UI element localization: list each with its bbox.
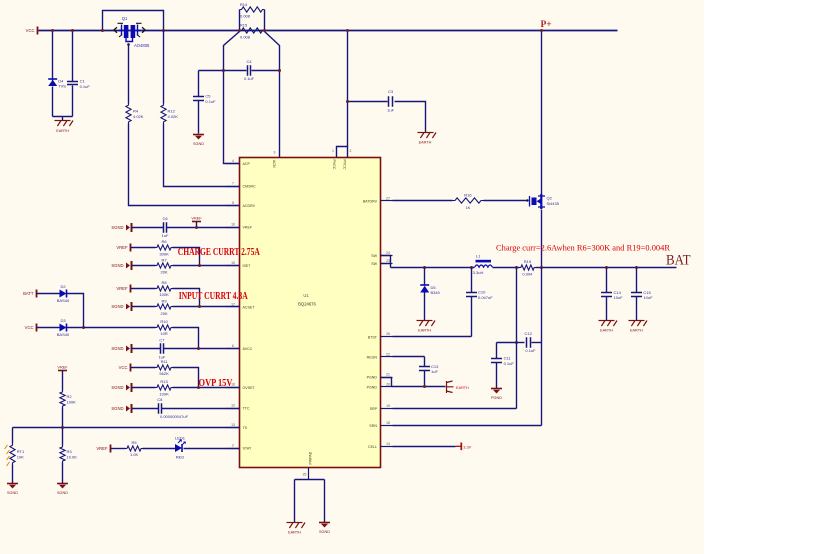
svg-text:7: 7 bbox=[232, 182, 234, 186]
power port VREF R6 bbox=[130, 244, 132, 252]
svg-text:4.02K: 4.02K bbox=[168, 114, 179, 119]
ground SGND at C5 bbox=[193, 135, 204, 140]
svg-text:26: 26 bbox=[386, 332, 390, 336]
svg-text:15: 15 bbox=[231, 261, 235, 265]
ground EARTH at D5 bbox=[417, 321, 436, 327]
svg-text:OVSET: OVSET bbox=[243, 386, 256, 390]
power port VREF at R2 bbox=[58, 370, 67, 372]
wire R12 to CMSRC bbox=[164, 124, 240, 187]
wire rail to R12 bbox=[163, 31, 165, 104]
ground EARTH at C3 bbox=[418, 133, 437, 139]
svg-text:Q2: Q2 bbox=[547, 196, 553, 201]
svg-text:24: 24 bbox=[386, 251, 390, 255]
svg-text:C4: C4 bbox=[246, 59, 252, 64]
wire C1 branch bbox=[72, 31, 74, 82]
svg-text:R8: R8 bbox=[162, 280, 168, 285]
svg-text:0.1uF: 0.1uF bbox=[205, 99, 216, 104]
svg-text:C6: C6 bbox=[162, 216, 168, 221]
wire SW node run bbox=[391, 267, 475, 269]
svg-text:VREF: VREF bbox=[96, 446, 108, 451]
power port VCC main input bbox=[37, 27, 39, 35]
wire BATT to D2 bbox=[37, 293, 60, 295]
svg-text:0.1uF: 0.1uF bbox=[504, 361, 515, 366]
wire C7 to AVCC pin bbox=[164, 348, 240, 350]
junction loop right bbox=[162, 29, 165, 32]
wire C10 top bbox=[471, 268, 473, 293]
svg-text:EARTH: EARTH bbox=[56, 129, 69, 133]
junction riser-C3 bbox=[346, 100, 349, 103]
svg-text:0.000000047uF: 0.000000047uF bbox=[160, 414, 189, 419]
junction rail-Q2 bbox=[540, 29, 543, 32]
svg-text:Q1: Q1 bbox=[122, 16, 128, 21]
transistor Q2 P-MOSFET battery switch bbox=[530, 194, 546, 209]
power port VREF at R5 bbox=[110, 445, 112, 453]
wire C15 to gnd bbox=[636, 297, 638, 321]
junction rail-PVCC bbox=[346, 29, 349, 32]
pin stub 12 left bbox=[226, 408, 240, 410]
junction C14 tap bbox=[605, 266, 608, 269]
svg-text:EARTH: EARTH bbox=[419, 141, 432, 145]
svg-text:C12: C12 bbox=[525, 331, 533, 336]
junction ISET bbox=[198, 264, 201, 267]
pin stub 7 left bbox=[226, 186, 240, 188]
capacitor C14 10uF bbox=[601, 290, 623, 300]
wire C13 to PGND wire bbox=[424, 371, 426, 387]
svg-text:18: 18 bbox=[386, 421, 390, 425]
wire R14 left leg bbox=[239, 10, 241, 31]
svg-text:BATT: BATT bbox=[23, 291, 34, 296]
svg-text:CELL: CELL bbox=[368, 445, 377, 449]
wire SGND to C8 bbox=[132, 408, 159, 410]
wire P+ to Q2 drain bbox=[541, 31, 543, 195]
wire VREF to R8 bbox=[131, 288, 156, 290]
svg-text:SGND: SGND bbox=[111, 263, 123, 268]
resistor R5 1.0K bbox=[126, 440, 143, 457]
svg-text:0.1uF: 0.1uF bbox=[80, 84, 91, 89]
wire R4 to ACDRV bbox=[129, 124, 240, 206]
wire D4 to ground bbox=[52, 87, 54, 117]
svg-text:L1: L1 bbox=[476, 254, 481, 259]
wire R8 to ACSET corner bbox=[173, 289, 200, 307]
svg-text:12: 12 bbox=[231, 404, 235, 408]
svg-text:ACDRV: ACDRV bbox=[243, 204, 256, 208]
svg-text:BATDRV: BATDRV bbox=[363, 199, 378, 203]
wire SRP vertical bbox=[516, 268, 518, 409]
svg-text:R15: R15 bbox=[240, 23, 248, 28]
wire VCC to R11 bbox=[131, 367, 156, 369]
svg-text:INPUT CURRT 4.8A: INPUT CURRT 4.8A bbox=[179, 291, 249, 302]
wire TS node to R3 bbox=[62, 428, 64, 446]
capacitor C3 1uF bbox=[389, 96, 393, 106]
svg-text:10R: 10R bbox=[160, 331, 167, 336]
svg-text:SW: SW bbox=[371, 254, 377, 258]
svg-text:R9: R9 bbox=[162, 299, 168, 304]
power port VCC at D3 bbox=[36, 324, 38, 332]
svg-text:20: 20 bbox=[386, 382, 390, 386]
svg-text:R13: R13 bbox=[160, 379, 168, 384]
power port BATT bbox=[36, 290, 38, 298]
svg-text:BTST: BTST bbox=[368, 335, 378, 339]
svg-text:562K: 562K bbox=[159, 371, 169, 376]
svg-text:EARTH: EARTH bbox=[630, 329, 643, 333]
op-amp U1 BQ24676 charger IC body bbox=[240, 158, 381, 468]
svg-text:0.1uF: 0.1uF bbox=[525, 348, 536, 353]
wire SGND-R9-ACSET bbox=[132, 306, 156, 308]
svg-text:6: 6 bbox=[232, 344, 234, 348]
junction C13-PGND bbox=[423, 385, 426, 388]
svg-text:P+: P+ bbox=[541, 20, 552, 30]
svg-text:SGND: SGND bbox=[111, 304, 123, 309]
capacitor C8 bbox=[159, 403, 162, 413]
resistor R7 20K bbox=[156, 257, 173, 274]
svg-text:SRP: SRP bbox=[370, 407, 378, 411]
junction SRP-C12 bbox=[515, 341, 518, 344]
svg-text:10K: 10K bbox=[17, 454, 24, 459]
pin stub 14 right bbox=[380, 446, 393, 448]
svg-text:VCC: VCC bbox=[119, 365, 128, 370]
wire pad left leg bbox=[294, 480, 296, 523]
capacitor C11 0.1uF bbox=[491, 356, 514, 366]
resistor RT1 10K bbox=[10, 444, 25, 465]
wire C14 to gnd bbox=[606, 297, 608, 321]
wire R5 to LED bbox=[143, 448, 176, 450]
ground SGND at R3 bbox=[57, 484, 68, 489]
resistor R10 10R bbox=[156, 319, 173, 336]
ground SGND at RT1 bbox=[7, 484, 18, 489]
transistor Q1 AO4805 bbox=[114, 23, 145, 41]
wire D5 to gnd bbox=[424, 293, 426, 321]
wire CELL run bbox=[393, 446, 456, 448]
resistor R12 4.02K bbox=[161, 104, 178, 124]
wire R7 to ISET pin bbox=[173, 265, 240, 267]
capacitor C12 0.1uF bbox=[527, 337, 531, 347]
wire C3 left bbox=[348, 101, 388, 103]
svg-text:SGND: SGND bbox=[57, 491, 68, 495]
power port SGND at C8 bbox=[126, 404, 132, 413]
wire SGND to C7 bbox=[132, 348, 161, 350]
svg-text:EARTH: EARTH bbox=[456, 386, 469, 390]
pin stub 19 right bbox=[380, 408, 393, 410]
svg-text:0.047uF: 0.047uF bbox=[478, 295, 493, 300]
wire R19 to SRN node bbox=[536, 267, 542, 269]
svg-text:ISET: ISET bbox=[243, 264, 252, 268]
svg-text:0.004: 0.004 bbox=[522, 271, 533, 276]
wire D2 to OR node bbox=[67, 294, 84, 328]
resistor R14 0.008 bbox=[240, 7, 265, 12]
wire SRN run bbox=[393, 425, 542, 427]
power port VREF drop bbox=[192, 221, 201, 223]
svg-text:PVCC: PVCC bbox=[332, 160, 336, 170]
svg-text:20K: 20K bbox=[161, 311, 168, 316]
svg-text:0.008: 0.008 bbox=[240, 34, 251, 39]
svg-text:C1: C1 bbox=[80, 79, 86, 84]
wire R9 to ACSET pin bbox=[173, 306, 240, 308]
svg-text:C10: C10 bbox=[478, 290, 486, 295]
svg-text:C8: C8 bbox=[157, 397, 163, 402]
wire C6 to VREF pin bbox=[167, 227, 240, 229]
wire D5 branch bbox=[424, 268, 426, 286]
svg-text:19: 19 bbox=[386, 404, 390, 408]
capacitor C6 1uF bbox=[162, 216, 169, 238]
junction D5 tap bbox=[423, 266, 426, 269]
svg-text:VREF: VREF bbox=[57, 366, 68, 370]
wire C5 lower lead bbox=[198, 101, 200, 134]
svg-text:D2: D2 bbox=[60, 284, 66, 289]
wire SRN vertical bbox=[541, 268, 543, 426]
ground EARTH at C14 bbox=[599, 321, 618, 327]
power port SGND at R9 bbox=[126, 302, 132, 311]
wire R10 to AVCC corner bbox=[173, 328, 199, 349]
wire BTST run bbox=[393, 336, 472, 338]
resistor R19 0.004 bbox=[520, 259, 536, 276]
svg-text:C11: C11 bbox=[504, 356, 512, 361]
wire SGND-R13-OVSET bbox=[132, 387, 156, 389]
wire L1 to R19 bbox=[493, 267, 520, 269]
LED D1 charge status bbox=[175, 440, 185, 452]
wire BATDRV to R16 bbox=[393, 200, 453, 202]
wire PVCC riser bbox=[347, 31, 349, 147]
svg-text:R12: R12 bbox=[168, 109, 176, 114]
junction C15 tap bbox=[635, 266, 638, 269]
svg-text:R4: R4 bbox=[133, 109, 139, 114]
wire R11 to OVSET corner bbox=[173, 368, 199, 388]
power port SGND at C6 bbox=[126, 223, 132, 232]
capacitor C4 0.1uF bbox=[244, 59, 255, 81]
pin stub 5 left bbox=[226, 205, 240, 207]
resistor R6 300K bbox=[156, 239, 173, 256]
junction TS node bbox=[61, 426, 64, 429]
wire C5 top link bbox=[199, 70, 224, 72]
resistor R15 0.008 bbox=[240, 28, 265, 33]
svg-text:VREF: VREF bbox=[116, 245, 128, 250]
svg-text:D3: D3 bbox=[60, 318, 66, 323]
wire input gnd join bbox=[53, 116, 73, 118]
svg-text:4: 4 bbox=[232, 159, 234, 163]
svg-text:VCC: VCC bbox=[25, 325, 34, 330]
wire VREF to R2 bbox=[62, 371, 64, 391]
pin stub 23 right bbox=[380, 263, 393, 265]
svg-text:ACP: ACP bbox=[243, 162, 251, 166]
capacitor C5 0.1uF bbox=[193, 94, 216, 104]
pin stub 18 right bbox=[380, 425, 393, 427]
svg-text:CHARGE CURRT 2.75A: CHARGE CURRT 2.75A bbox=[178, 247, 261, 258]
svg-text:100K: 100K bbox=[67, 400, 77, 405]
wire R3 to gnd bbox=[62, 463, 64, 484]
resistor R9 20K bbox=[156, 299, 173, 316]
pin stub 2 left bbox=[226, 448, 240, 450]
svg-text:BAT: BAT bbox=[666, 253, 691, 269]
resistor R13 100K bbox=[156, 379, 173, 396]
svg-text:BAS40: BAS40 bbox=[57, 332, 70, 337]
svg-text:300K: 300K bbox=[159, 252, 169, 257]
svg-text:1uF: 1uF bbox=[431, 369, 438, 374]
svg-text:R7: R7 bbox=[162, 257, 168, 262]
junction Q1 gate bbox=[127, 43, 130, 46]
capacitor C13 1uF bbox=[419, 364, 439, 374]
resistor R8 100K bbox=[156, 280, 173, 297]
svg-text:R6: R6 bbox=[162, 239, 168, 244]
wire ACN kelvin slant bbox=[265, 32, 280, 158]
wire C11 down bbox=[496, 343, 498, 359]
wire pad split bbox=[295, 479, 325, 481]
wire D4 branch bbox=[52, 31, 54, 81]
wire C15 top bbox=[636, 268, 638, 293]
junction ACSET bbox=[198, 305, 201, 308]
ground PGND at C11 bbox=[491, 389, 502, 394]
svg-text:SGND: SGND bbox=[111, 346, 123, 351]
wire PGND bracket bbox=[381, 378, 392, 387]
ground EARTH input bbox=[55, 121, 74, 127]
svg-text:0.008: 0.008 bbox=[240, 14, 251, 19]
wire PVCC bracket bbox=[337, 147, 348, 158]
wire R13 to OVSET pin bbox=[173, 387, 240, 389]
junction OVSET bbox=[197, 386, 200, 389]
svg-text:22: 22 bbox=[386, 352, 390, 356]
power port SGND at R7 bbox=[126, 261, 132, 270]
svg-text:R5: R5 bbox=[132, 440, 138, 445]
wire SW pin bracket bbox=[381, 256, 391, 268]
svg-text:27: 27 bbox=[386, 196, 390, 200]
svg-text:SGND: SGND bbox=[7, 491, 18, 495]
junction C10 tap bbox=[470, 266, 473, 269]
svg-text:REGN: REGN bbox=[367, 355, 378, 359]
svg-text:SGND: SGND bbox=[319, 530, 330, 534]
resistor R3 10.0K bbox=[60, 446, 77, 463]
svg-text:SRN: SRN bbox=[369, 424, 377, 428]
wire VCC to P+ rail bbox=[39, 30, 618, 32]
svg-text:LED1: LED1 bbox=[175, 436, 186, 441]
diode D2 BAS40 bbox=[60, 290, 67, 298]
power port VREF R8 bbox=[130, 285, 132, 293]
svg-text:C14: C14 bbox=[614, 290, 622, 295]
wire R16 to Q2 gate bbox=[484, 200, 528, 202]
svg-text:SGND: SGND bbox=[111, 406, 123, 411]
svg-text:EARTH: EARTH bbox=[600, 329, 613, 333]
wire VCC to D3 bbox=[37, 327, 60, 329]
svg-text:PVCC: PVCC bbox=[342, 160, 346, 170]
wire REGN run bbox=[393, 356, 425, 358]
svg-text:23: 23 bbox=[386, 259, 390, 263]
svg-text:R19: R19 bbox=[524, 259, 532, 264]
junction SW-SRN cross bbox=[540, 266, 543, 269]
svg-text:R14: R14 bbox=[240, 2, 248, 7]
diode D3 BAS40 bbox=[60, 324, 67, 332]
svg-text:PGND: PGND bbox=[367, 376, 378, 380]
svg-text:TVS: TVS bbox=[58, 84, 66, 89]
junction loop left bbox=[101, 29, 104, 32]
junction sense right bbox=[263, 29, 266, 32]
wire LED to STAT pin bbox=[184, 448, 240, 450]
resistor R4 4.02K bbox=[126, 104, 144, 124]
svg-text:R16: R16 bbox=[464, 193, 472, 198]
wire SRP run bbox=[393, 408, 517, 410]
svg-text:R2: R2 bbox=[67, 394, 73, 399]
svg-text:3.3uH: 3.3uH bbox=[473, 270, 484, 275]
svg-text:0.1uF: 0.1uF bbox=[244, 76, 255, 81]
svg-text:C3: C3 bbox=[388, 89, 394, 94]
wire C3 to earth bbox=[395, 102, 426, 133]
junction Q2 gate bbox=[526, 199, 528, 201]
svg-text:ACN: ACN bbox=[272, 160, 276, 168]
svg-text:10uF: 10uF bbox=[643, 295, 653, 300]
wire OR node to R10 bbox=[84, 327, 156, 329]
wire BAT rail bbox=[542, 267, 677, 269]
ground EARTH at C15 bbox=[629, 321, 648, 327]
svg-text:SGND: SGND bbox=[111, 225, 123, 230]
pin stub 27 right bbox=[380, 200, 393, 202]
svg-text:C13: C13 bbox=[431, 364, 439, 369]
svg-text:10uF: 10uF bbox=[614, 295, 624, 300]
svg-text:10.0K: 10.0K bbox=[67, 455, 78, 460]
ground SGND at pad bbox=[319, 523, 330, 528]
junction rail-C1 bbox=[71, 29, 74, 32]
svg-text:SW: SW bbox=[371, 262, 377, 266]
capacitor C10 0.047uF bbox=[466, 290, 493, 300]
power port SGND at C7 bbox=[126, 344, 132, 353]
diode D5 B340A bbox=[420, 285, 429, 293]
svg-text:25: 25 bbox=[303, 473, 307, 477]
svg-text:PWPAD: PWPAD bbox=[309, 451, 313, 464]
wire C1 to ground bbox=[72, 86, 74, 117]
svg-text:SGND: SGND bbox=[111, 385, 123, 390]
junction rail-D4 bbox=[51, 29, 54, 32]
diode D4 TVS bbox=[48, 79, 57, 86]
svg-text:2: 2 bbox=[350, 149, 352, 153]
svg-text:10: 10 bbox=[231, 223, 235, 227]
svg-text:21: 21 bbox=[386, 373, 390, 377]
pin stub 21 right bbox=[380, 377, 393, 379]
svg-text:5: 5 bbox=[232, 201, 234, 205]
wire SGND to C6 bbox=[132, 227, 164, 229]
junction ACN-C4 bbox=[278, 69, 281, 72]
svg-text:BAS40: BAS40 bbox=[57, 298, 70, 303]
svg-text:Charge curr=2.6Awhen R6=300K a: Charge curr=2.6Awhen R6=300K and R19=0.0… bbox=[496, 242, 670, 252]
svg-text:1uF: 1uF bbox=[162, 233, 169, 238]
wire C12 left bbox=[517, 342, 525, 344]
svg-text:TS: TS bbox=[243, 426, 248, 430]
svg-text:R11: R11 bbox=[161, 359, 169, 364]
wire PGND run bbox=[392, 386, 446, 388]
wire TS to RT1 bbox=[12, 428, 14, 444]
pin stub 15 left bbox=[226, 265, 240, 267]
svg-text:U1: U1 bbox=[303, 293, 309, 298]
wire TS row bbox=[13, 427, 240, 429]
power port VCC at R11 bbox=[130, 364, 132, 372]
svg-text:RED: RED bbox=[176, 455, 185, 460]
svg-text:3.3V: 3.3V bbox=[463, 445, 471, 449]
svg-text:1uF: 1uF bbox=[387, 108, 394, 113]
wire VREF to R6 bbox=[131, 247, 156, 249]
svg-text:PGND: PGND bbox=[367, 385, 378, 389]
junction VREF row bbox=[195, 226, 198, 229]
resistor R2 100K bbox=[60, 391, 76, 408]
wire Q1 gate down bbox=[128, 45, 130, 104]
svg-text:1K: 1K bbox=[465, 205, 470, 210]
pin stub 10 left bbox=[226, 227, 240, 229]
wire VREF to R5 bbox=[111, 448, 126, 450]
pin stub 4 left bbox=[226, 163, 240, 165]
svg-text:C15: C15 bbox=[643, 290, 651, 295]
svg-text:13: 13 bbox=[231, 423, 235, 427]
svg-text:C5: C5 bbox=[205, 94, 211, 99]
wire Q2 source down bbox=[541, 210, 543, 268]
svg-text:OVP 15V: OVP 15V bbox=[199, 378, 234, 389]
pin stub 26 right bbox=[380, 336, 393, 338]
capacitor C7 1uF bbox=[158, 337, 165, 359]
junction OR node bbox=[82, 326, 85, 329]
wire SGND-R7-ISET bbox=[132, 265, 156, 267]
svg-text:Si4435: Si4435 bbox=[547, 201, 560, 206]
